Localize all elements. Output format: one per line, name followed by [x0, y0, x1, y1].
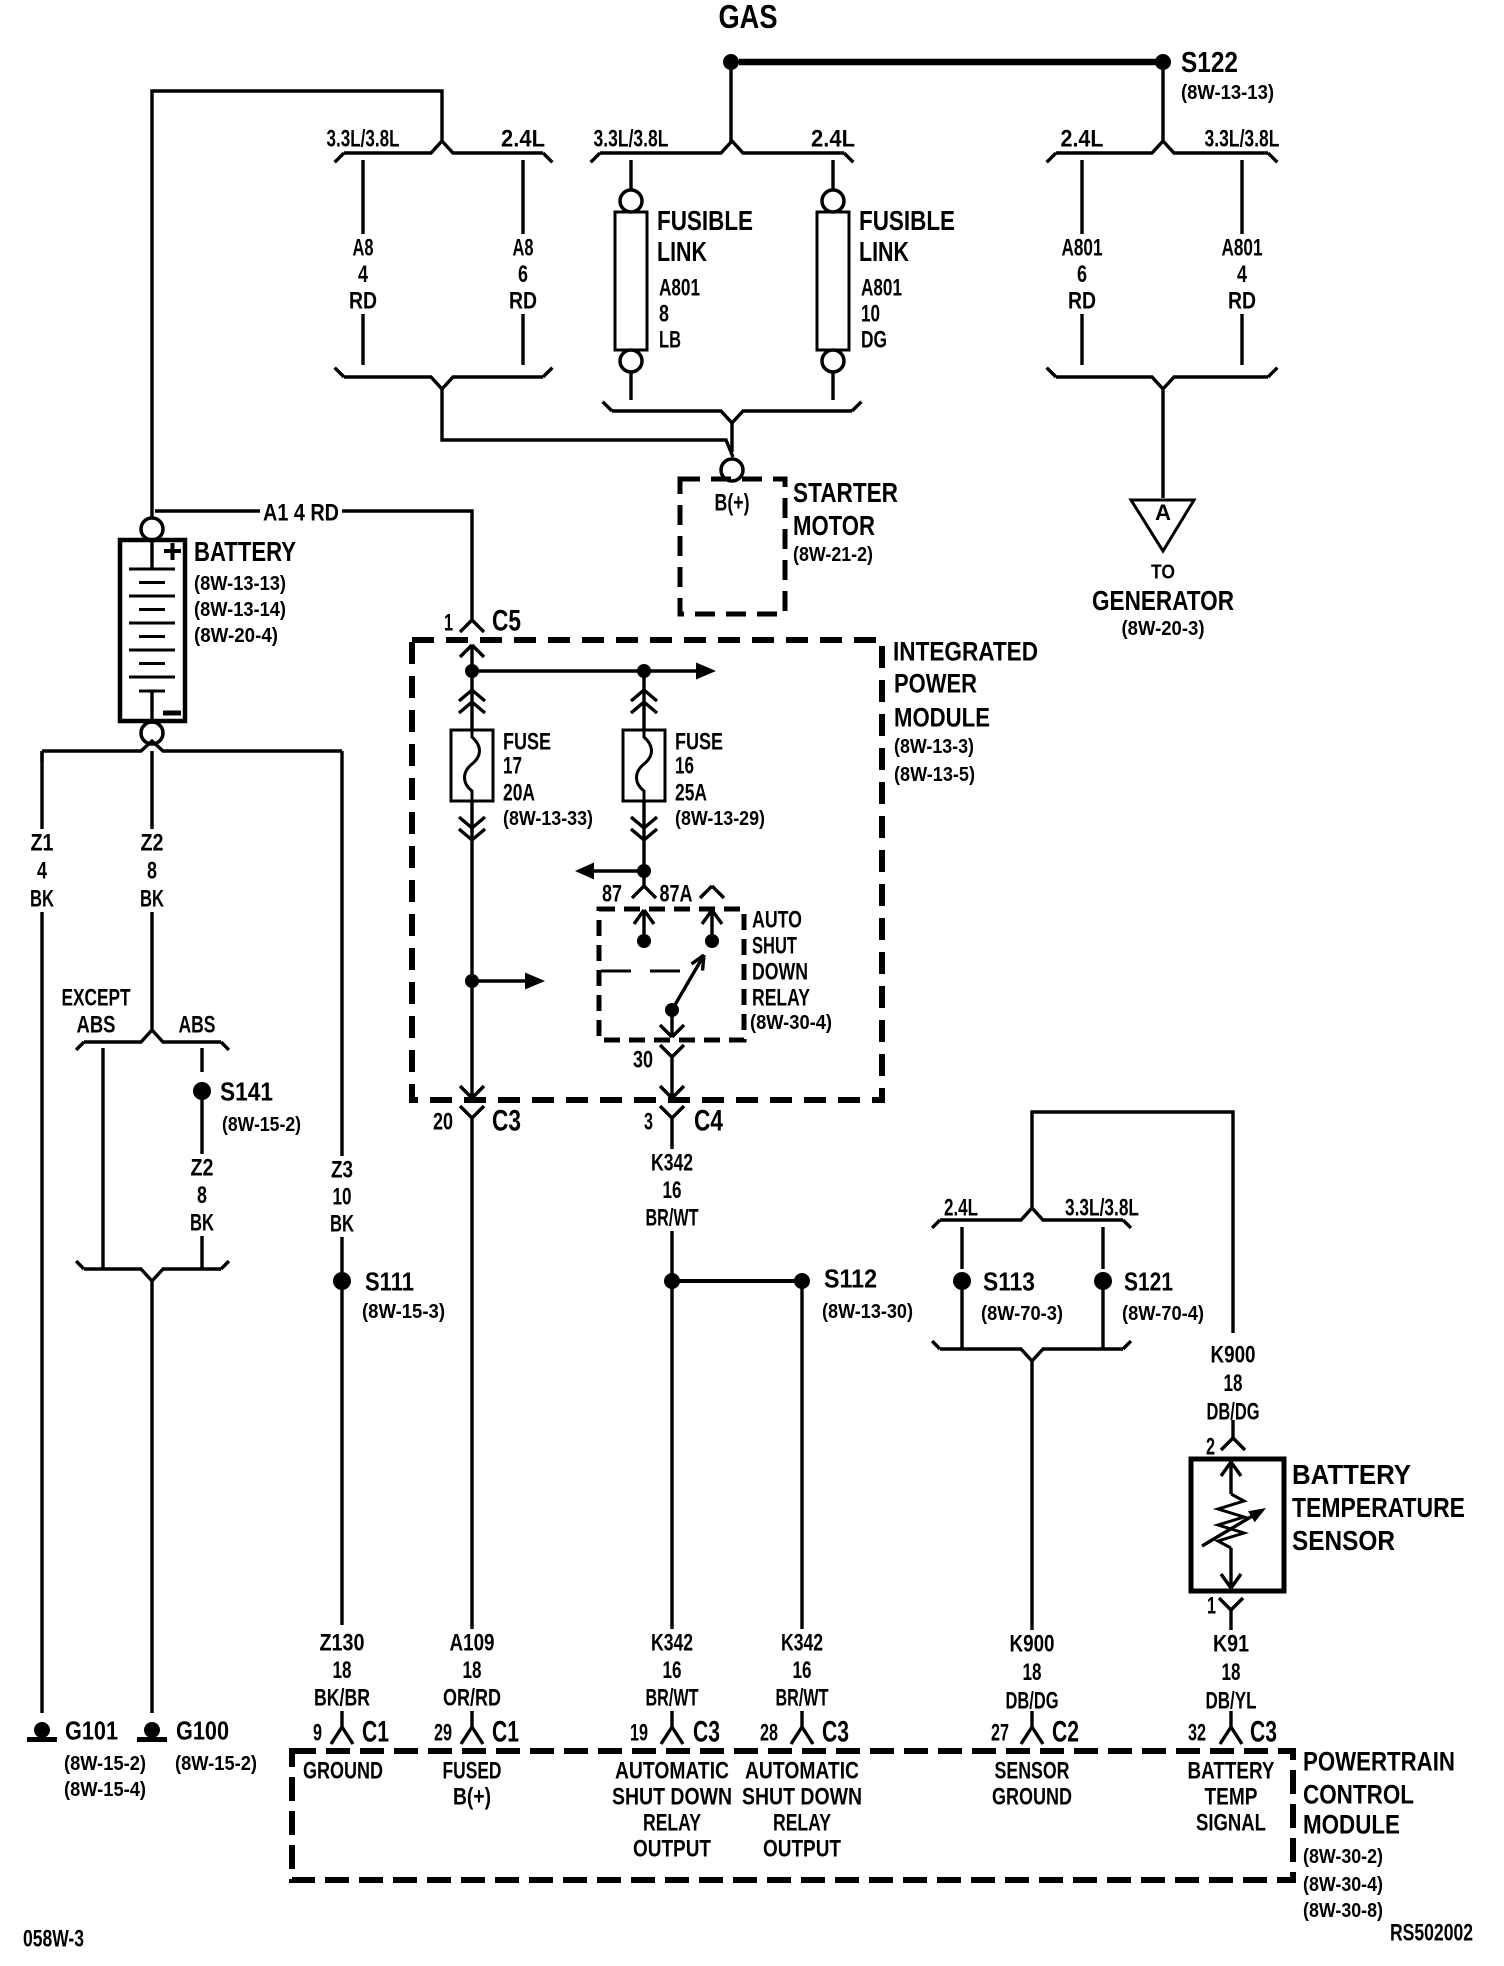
svg-text:S113: S113 — [983, 1267, 1035, 1297]
svg-text:BR/WT: BR/WT — [646, 1684, 699, 1711]
svg-text:A801: A801 — [659, 274, 700, 301]
svg-text:SHUT DOWN: SHUT DOWN — [742, 1783, 862, 1810]
wire sensor ground loop to battery temp sensor feed — [1032, 1112, 1233, 1333]
svg-text:(8W-30-2): (8W-30-2) — [1303, 1846, 1383, 1868]
wire fuse 17 output — [459, 801, 485, 1099]
wire into fuse 16 with connector chevrons — [631, 671, 657, 730]
svg-text:EXCEPT: EXCEPT — [62, 984, 131, 1011]
svg-text:G100: G100 — [176, 1716, 229, 1746]
svg-text:DOWN: DOWN — [752, 958, 808, 985]
svg-text:RELAY: RELAY — [752, 984, 810, 1011]
merge bracket S113/S121 — [932, 1341, 1131, 1361]
connector C4 pin 3 out of IPM — [644, 1086, 723, 1138]
merge bracket fusible links to starter feed — [603, 402, 862, 423]
svg-text:BR/WT: BR/WT — [776, 1684, 829, 1711]
battery negative terminal — [141, 722, 163, 744]
svg-text:(8W-13-14): (8W-13-14) — [194, 599, 286, 621]
battery temperature sensor — [1191, 1459, 1465, 1591]
svg-text:FUSE: FUSE — [503, 728, 551, 755]
svg-text:LB: LB — [659, 326, 681, 353]
svg-text:S121: S121 — [1124, 1267, 1173, 1297]
wire A1 4 RD battery to IPM C5 — [155, 499, 472, 620]
svg-text:6: 6 — [518, 261, 528, 288]
svg-text:(8W-13-13): (8W-13-13) — [194, 573, 286, 595]
svg-text:RD: RD — [1068, 287, 1096, 314]
svg-text:(8W-70-4): (8W-70-4) — [1122, 1303, 1204, 1325]
svg-text:A801: A801 — [1062, 234, 1103, 261]
wire Z130 18 BK/BR S111 to PCM — [311, 1629, 373, 1711]
svg-text:4: 4 — [37, 857, 47, 884]
starter motor — [680, 477, 898, 614]
svg-text:3: 3 — [644, 1108, 653, 1135]
svg-text:A1 4 RD: A1 4 RD — [263, 499, 339, 526]
svg-text:AUTO: AUTO — [752, 906, 802, 933]
svg-text:S112: S112 — [824, 1264, 877, 1294]
PCM pin 27 C2 sensor ground — [991, 1711, 1079, 1810]
wire C5 to fuse bus — [470, 645, 473, 671]
wire S121 to merge — [1101, 1290, 1104, 1349]
svg-text:K91: K91 — [1213, 1630, 1249, 1657]
svg-text:ABS: ABS — [179, 1011, 216, 1038]
svg-text:A801: A801 — [1222, 234, 1263, 261]
svg-text:RD: RD — [349, 287, 377, 314]
svg-text:3.3L/3.8L: 3.3L/3.8L — [327, 125, 400, 152]
svg-text:SHUT DOWN: SHUT DOWN — [612, 1783, 732, 1810]
svg-text:Z130: Z130 — [320, 1629, 365, 1656]
PCM pin 19 C3 ASD relay output — [612, 1711, 732, 1862]
svg-text:(8W-20-3): (8W-20-3) — [1122, 618, 1205, 640]
PCM pin 32 C3 battery temp signal — [1188, 1711, 1278, 1836]
svg-text:Z1: Z1 — [31, 829, 54, 856]
wire A801 6 RD — [1058, 160, 1105, 365]
svg-text:C3: C3 — [492, 1105, 521, 1138]
relay terminal 87 connector — [602, 880, 656, 907]
wire K342 16 BR/WT C4 to splice S112 — [642, 1118, 701, 1712]
svg-text:(8W-21-2): (8W-21-2) — [793, 544, 873, 566]
wire fusible link outputs — [631, 372, 833, 400]
svg-text:4: 4 — [1237, 261, 1247, 288]
svg-text:GROUND: GROUND — [303, 1757, 383, 1784]
fuse 17 20A — [451, 728, 593, 830]
svg-text:19: 19 — [630, 1719, 648, 1746]
svg-text:STARTER: STARTER — [793, 477, 898, 508]
svg-text:RELAY: RELAY — [773, 1809, 831, 1836]
svg-text:27: 27 — [991, 1719, 1009, 1746]
fuse bus arrow to other circuits — [472, 663, 716, 680]
connector C3 pin 20 out of IPM — [433, 1086, 521, 1138]
wire Z3 10 BK to splice S111 — [327, 762, 357, 1625]
svg-text:FUSE: FUSE — [675, 728, 723, 755]
relay internal divider — [601, 970, 690, 973]
svg-text:GAS: GAS — [719, 0, 778, 35]
svg-text:29: 29 — [434, 1719, 452, 1746]
wire K900 18 DB/DG to battery temp sensor — [1204, 1341, 1263, 1425]
svg-text:Z2: Z2 — [191, 1154, 214, 1181]
svg-text:BK: BK — [190, 1209, 214, 1236]
junction node fuse 16 output with left arrow — [575, 863, 651, 880]
svg-text:(8W-20-4): (8W-20-4) — [194, 625, 278, 647]
wire to S121 — [1101, 1227, 1104, 1269]
wire merge to starter motor terminal — [730, 423, 733, 452]
svg-text:1: 1 — [1207, 1592, 1216, 1619]
split bracket A801 engine variants — [1047, 125, 1280, 162]
svg-text:BATTERY: BATTERY — [194, 536, 296, 567]
svg-text:LINK: LINK — [859, 236, 909, 267]
svg-text:(8W-30-8): (8W-30-8) — [1303, 1900, 1383, 1922]
split bracket fusible-link engine variants — [591, 125, 855, 162]
wire S122 down to engine split — [1161, 70, 1164, 142]
merge bracket A8 wires — [335, 368, 553, 389]
svg-text:FUSED: FUSED — [443, 1757, 502, 1784]
relay terminal 30 exit — [633, 1010, 684, 1073]
svg-text:TEMP: TEMP — [1205, 1783, 1258, 1810]
relay fixed contact 87A — [702, 910, 722, 948]
connector C5 pin 1 into IPM — [444, 605, 521, 657]
svg-text:A: A — [1155, 500, 1171, 525]
svg-text:S141: S141 — [220, 1077, 273, 1107]
svg-text:(8W-70-3): (8W-70-3) — [981, 1303, 1063, 1325]
svg-text:Z3: Z3 — [331, 1156, 353, 1183]
svg-text:1: 1 — [444, 609, 453, 636]
svg-text:GENERATOR: GENERATOR — [1092, 585, 1234, 616]
wire to fusible link A801 8 LB — [629, 160, 632, 190]
svg-text:2.4L: 2.4L — [944, 1194, 978, 1221]
svg-text:(8W-13-3): (8W-13-3) — [894, 736, 974, 758]
wire to generator off-page triangle — [1161, 389, 1164, 498]
svg-text:A801: A801 — [861, 274, 902, 301]
wire battery positive riser to A8 split — [152, 91, 442, 518]
svg-text:3.3L/3.8L: 3.3L/3.8L — [594, 125, 669, 152]
merge bracket A801 wires — [1047, 368, 1278, 389]
svg-text:FUSIBLE: FUSIBLE — [657, 205, 753, 236]
battery temp sensor pin 2 connector — [1206, 1420, 1245, 1460]
svg-text:(8W-15-2): (8W-15-2) — [64, 1753, 146, 1775]
svg-text:K900: K900 — [1211, 1341, 1256, 1368]
svg-text:10: 10 — [861, 300, 880, 327]
wire A8 merge down and over to starter — [442, 389, 733, 457]
svg-text:(8W-15-3): (8W-15-3) — [362, 1301, 445, 1323]
svg-text:87A: 87A — [660, 880, 693, 907]
svg-text:TO: TO — [1151, 561, 1175, 583]
wire S113 to merge — [960, 1290, 963, 1349]
svg-text:RS502002: RS502002 — [1390, 1919, 1473, 1946]
svg-text:(8W-13-5): (8W-13-5) — [894, 764, 975, 786]
svg-text:(8W-15-2): (8W-15-2) — [175, 1753, 257, 1775]
relay movable blade — [665, 955, 704, 1017]
svg-text:2.4L: 2.4L — [1061, 125, 1104, 152]
wire to S113 — [960, 1227, 963, 1269]
svg-text:OR/RD: OR/RD — [443, 1684, 501, 1711]
wire into fuse 17 with connector chevrons — [459, 671, 485, 730]
svg-text:(8W-15-2): (8W-15-2) — [222, 1114, 301, 1136]
node GAS (fuel) splice feed — [719, 0, 778, 70]
splice S112 tie line — [664, 1264, 913, 1323]
svg-text:BK: BK — [330, 1210, 354, 1237]
svg-text:C5: C5 — [492, 605, 521, 638]
svg-text:18: 18 — [333, 1657, 352, 1684]
svg-text:K900: K900 — [1010, 1630, 1055, 1657]
svg-text:16: 16 — [675, 752, 694, 779]
svg-text:(8W-30-4): (8W-30-4) — [1303, 1874, 1383, 1896]
svg-text:BK: BK — [30, 885, 54, 912]
wire to fusible link A801 10 DG — [831, 160, 834, 190]
off-page connector A to generator — [1092, 500, 1234, 640]
svg-text:8: 8 — [197, 1182, 207, 1209]
relay fixed contact 87 — [634, 910, 654, 948]
sheet code RS502002 — [1390, 1919, 1473, 1946]
svg-text:K342: K342 — [651, 1629, 693, 1656]
svg-text:C3: C3 — [822, 1716, 849, 1749]
wire except-abs branch — [101, 1048, 104, 1269]
svg-text:9: 9 — [313, 1719, 322, 1746]
ground G101 — [27, 1716, 146, 1801]
battery positive terminal — [141, 518, 163, 540]
svg-text:87: 87 — [602, 880, 622, 907]
svg-text:32: 32 — [1188, 1719, 1206, 1746]
svg-text:B(+): B(+) — [715, 489, 750, 516]
svg-text:RD: RD — [509, 287, 537, 314]
svg-text:S111: S111 — [365, 1267, 414, 1297]
ground G100 — [137, 1716, 257, 1775]
sheet number 058W-3 — [23, 1925, 84, 1952]
svg-text:POWER: POWER — [894, 668, 977, 698]
wire GAS dot down to engine split — [729, 70, 732, 142]
fusible link A801 10 DG — [817, 190, 955, 372]
junction node fuse bus right — [637, 664, 651, 678]
svg-text:RELAY: RELAY — [643, 1809, 701, 1836]
svg-text:A109: A109 — [450, 1629, 495, 1656]
svg-text:C1: C1 — [492, 1716, 519, 1749]
wire A801 4 RD — [1218, 160, 1265, 365]
svg-text:DB/YL: DB/YL — [1206, 1687, 1257, 1714]
svg-text:SIGNAL: SIGNAL — [1196, 1809, 1266, 1836]
svg-text:20: 20 — [433, 1108, 453, 1135]
wire Z2 merge to G100 — [150, 1281, 153, 1713]
wire abs branch Z2 8 BK lower segment — [187, 1100, 217, 1269]
svg-text:BR/WT: BR/WT — [646, 1204, 699, 1231]
svg-text:2.4L: 2.4L — [501, 125, 545, 152]
svg-text:2: 2 — [1206, 1433, 1215, 1460]
svg-text:C3: C3 — [1250, 1716, 1277, 1749]
svg-text:30: 30 — [633, 1046, 653, 1073]
svg-text:B(+): B(+) — [453, 1783, 491, 1810]
svg-text:18: 18 — [1224, 1370, 1243, 1397]
svg-text:FUSIBLE: FUSIBLE — [859, 205, 955, 236]
svg-text:GROUND: GROUND — [992, 1783, 1072, 1810]
svg-text:DB/DG: DB/DG — [1006, 1687, 1059, 1714]
junction node fuse bus left — [465, 664, 479, 678]
svg-text:OUTPUT: OUTPUT — [763, 1835, 841, 1862]
relay terminal 87A connector — [660, 880, 725, 907]
svg-text:3.3L/3.8L: 3.3L/3.8L — [1205, 125, 1280, 152]
wire A109 18 OR/RD C3 to PCM — [440, 1118, 504, 1712]
svg-text:TEMPERATURE: TEMPERATURE — [1292, 1492, 1465, 1523]
PCM pin 29 C1 fused B+ — [434, 1711, 519, 1810]
split bracket S113/S121 engine variants — [932, 1194, 1139, 1228]
svg-text:DG: DG — [861, 326, 887, 353]
fusible link A801 8 LB — [615, 190, 753, 372]
splice S121 — [1094, 1267, 1204, 1325]
svg-text:18: 18 — [1222, 1659, 1241, 1686]
splice S141 — [193, 1077, 301, 1136]
auto shut down relay box — [599, 906, 832, 1040]
svg-text:6: 6 — [1077, 261, 1087, 288]
svg-text:SENSOR: SENSOR — [1292, 1525, 1395, 1556]
wire A8 4 RD — [346, 160, 380, 365]
svg-text:SHUT: SHUT — [752, 932, 797, 959]
svg-text:CONTROL: CONTROL — [1303, 1779, 1414, 1809]
svg-text:16: 16 — [663, 1657, 682, 1684]
svg-text:BK: BK — [140, 885, 164, 912]
svg-text:BATTERY: BATTERY — [1292, 1459, 1411, 1490]
svg-text:SENSOR: SENSOR — [995, 1757, 1070, 1784]
junction node fused output arrow — [465, 973, 545, 990]
svg-text:A8: A8 — [513, 234, 534, 261]
svg-text:(8W-30-4): (8W-30-4) — [750, 1012, 832, 1034]
svg-text:RD: RD — [1228, 287, 1256, 314]
wire fuse 16 output — [631, 801, 657, 886]
svg-text:3.3L/3.8L: 3.3L/3.8L — [1065, 1194, 1139, 1221]
svg-text:LINK: LINK — [657, 236, 707, 267]
svg-text:(8W-13-29): (8W-13-29) — [675, 808, 765, 830]
wire GAS bus to S122 (heavy) — [739, 59, 1156, 66]
wire K91 18 DB/YL to PCM — [1202, 1610, 1259, 1714]
svg-text:28: 28 — [760, 1719, 778, 1746]
wire A8 6 RD — [506, 160, 540, 365]
svg-text:MOTOR: MOTOR — [793, 510, 875, 541]
svg-text:2.4L: 2.4L — [811, 125, 855, 152]
wire K900 18 DB/DG to PCM sensor ground — [1002, 1361, 1061, 1714]
svg-text:INTEGRATED: INTEGRATED — [893, 636, 1038, 666]
svg-text:K342: K342 — [651, 1149, 693, 1176]
svg-text:10: 10 — [333, 1183, 352, 1210]
splice S111 — [333, 1267, 445, 1323]
svg-text:18: 18 — [463, 1657, 482, 1684]
wire Z1 4 BK to G101 — [27, 751, 57, 1713]
wire abs branch upper segment — [200, 1048, 203, 1072]
merge bracket abs branches — [76, 1261, 229, 1281]
powertrain control module box — [292, 1746, 1455, 1922]
svg-text:8: 8 — [659, 300, 669, 327]
svg-text:C3: C3 — [693, 1716, 720, 1749]
svg-text:(8W-13-33): (8W-13-33) — [503, 808, 593, 830]
svg-text:8: 8 — [147, 857, 157, 884]
svg-text:17: 17 — [503, 752, 522, 779]
PCM pin 28 C3 ASD relay output — [742, 1711, 862, 1862]
svg-text:S122: S122 — [1181, 47, 1238, 79]
battery B1 — [120, 536, 296, 721]
svg-text:058W-3: 058W-3 — [23, 1925, 84, 1952]
svg-text:25A: 25A — [675, 779, 707, 806]
split bracket EXCEPT ABS / ABS — [62, 984, 229, 1050]
svg-text:(8W-13-13): (8W-13-13) — [1181, 82, 1274, 104]
splice S122 — [1155, 47, 1274, 104]
wire K342 16 BR/WT S112 to PCM — [772, 1281, 831, 1712]
svg-text:OUTPUT: OUTPUT — [633, 1835, 711, 1862]
integrated power module box — [412, 636, 1038, 1100]
wire Z2 8 BK battery to ABS split — [137, 751, 167, 1031]
battery temp sensor pin 1 connector — [1207, 1592, 1243, 1619]
split bracket A8 engine variants — [327, 125, 553, 162]
svg-text:(8W-15-4): (8W-15-4) — [64, 1779, 146, 1801]
PCM pin 9 C1 ground — [303, 1711, 389, 1784]
split bracket battery negative to Z1 Z2 Z3 — [42, 741, 342, 762]
svg-text:G101: G101 — [65, 1716, 118, 1746]
svg-text:Z2: Z2 — [141, 829, 164, 856]
svg-text:BATTERY: BATTERY — [1188, 1757, 1275, 1784]
svg-text:MODULE: MODULE — [894, 702, 990, 732]
svg-text:(8W-13-30): (8W-13-30) — [822, 1301, 913, 1323]
fuse 16 25A — [623, 728, 765, 830]
starter motor terminal — [721, 459, 743, 481]
svg-text:4: 4 — [358, 261, 368, 288]
svg-text:AUTOMATIC: AUTOMATIC — [745, 1757, 859, 1784]
wire relay 30 to C4 — [670, 1057, 673, 1098]
svg-text:POWERTRAIN: POWERTRAIN — [1303, 1746, 1455, 1776]
svg-text:BK/BR: BK/BR — [314, 1684, 370, 1711]
svg-text:C2: C2 — [1052, 1716, 1079, 1749]
svg-text:20A: 20A — [503, 779, 535, 806]
svg-text:C1: C1 — [362, 1716, 389, 1749]
svg-text:K342: K342 — [781, 1629, 823, 1656]
svg-text:C4: C4 — [694, 1105, 723, 1138]
svg-text:AUTOMATIC: AUTOMATIC — [615, 1757, 729, 1784]
svg-text:MODULE: MODULE — [1303, 1809, 1400, 1839]
svg-text:16: 16 — [793, 1657, 812, 1684]
svg-text:A8: A8 — [353, 234, 374, 261]
svg-text:18: 18 — [1023, 1659, 1042, 1686]
svg-text:ABS: ABS — [77, 1011, 116, 1038]
splice S113 — [953, 1267, 1063, 1325]
svg-text:16: 16 — [663, 1177, 682, 1204]
